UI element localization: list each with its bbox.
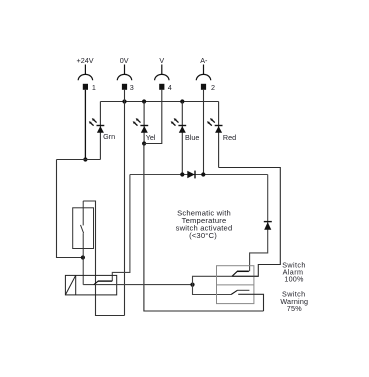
- diode D2 vertical: [264, 222, 272, 230]
- wire red line into pivot: [232, 275, 258, 277]
- terminal 3 0V: [117, 65, 131, 81]
- svg-text:Yel: Yel: [146, 133, 156, 142]
- wire +24V to Grn LED: [57, 159, 101, 161]
- svg-text:Red: Red: [223, 133, 236, 142]
- terminal 4 V: [155, 65, 169, 81]
- terminal 1 +24V: [78, 65, 92, 81]
- wire Red branch: [218, 102, 220, 168]
- svg-text:Grn: Grn: [103, 132, 115, 141]
- switch assembly box: [217, 266, 254, 304]
- wire Grn branch: [99, 102, 101, 160]
- svg-text:V: V: [159, 56, 164, 65]
- node junction +24V: [83, 157, 87, 161]
- LED Blue: [171, 118, 187, 133]
- relay contact blade: [94, 281, 112, 285]
- node bus Blue: [180, 99, 184, 103]
- svg-text:75%: 75%: [287, 304, 302, 313]
- svg-text:1: 1: [92, 83, 96, 92]
- svg-text:(<30°C): (<30°C): [189, 231, 217, 240]
- wire to alarm switch: [193, 276, 233, 284]
- diode D1 series: [187, 171, 195, 179]
- node junction Yel-V: [142, 141, 146, 145]
- svg-text:0V: 0V: [120, 56, 129, 65]
- svg-text:Blue: Blue: [185, 133, 199, 142]
- terminal 4 square pin: [159, 84, 164, 90]
- wire relay contact common: [83, 284, 192, 286]
- node bus 0V: [122, 99, 126, 103]
- wire diode rail left leg to relay contact: [112, 175, 130, 282]
- wire Yel branch: [143, 102, 145, 144]
- wire left bypass vertical: [57, 160, 83, 258]
- wire +24V vertical: [84, 90, 86, 160]
- svg-text:A-: A-: [200, 56, 208, 65]
- svg-text:100%: 100%: [284, 274, 304, 283]
- wire warning output: [238, 294, 263, 311]
- wire V net down to bottom rail: [144, 144, 264, 312]
- LED Yel: [133, 118, 149, 133]
- svg-text:3: 3: [130, 83, 134, 92]
- temperature switch S1: [81, 201, 84, 285]
- wire Blue branch: [181, 102, 183, 175]
- terminal 2 square pin: [201, 84, 206, 90]
- wire A- vertical: [203, 90, 205, 175]
- relay coil diagonal: [65, 275, 75, 295]
- wire V terminal down: [144, 90, 162, 144]
- relay coil divider: [75, 275, 77, 295]
- node A- on diode rail: [201, 172, 205, 176]
- relay K1 box: [65, 275, 116, 295]
- terminal 2 A-: [196, 65, 210, 81]
- node junction temp-switch out: [81, 255, 85, 259]
- svg-text:+24V: +24V: [77, 56, 94, 65]
- wire 0V bus horizontal: [100, 101, 218, 103]
- node bus Yel: [142, 99, 146, 103]
- wire Red to alarm pivot: [219, 168, 281, 277]
- temperature switch box: [73, 208, 94, 249]
- terminal 1 square pin: [83, 84, 88, 90]
- LED Grn: [89, 118, 105, 133]
- terminal 3 square pin: [122, 84, 127, 90]
- switch warning blade: [231, 290, 249, 294]
- svg-text:4: 4: [168, 83, 172, 92]
- wire diode rail right leg: [250, 175, 268, 272]
- node Blue on diode rail: [180, 172, 184, 176]
- wire 0V bottom to relay: [83, 201, 124, 316]
- switch box divider: [217, 284, 254, 286]
- wire diode rail: [130, 174, 268, 176]
- LED Red: [207, 118, 223, 133]
- wire to warning switch: [193, 285, 232, 295]
- node junction to switches: [190, 283, 194, 287]
- svg-text:2: 2: [211, 83, 215, 92]
- wire 0V vertical: [124, 90, 126, 316]
- switch alarm blade: [232, 271, 249, 276]
